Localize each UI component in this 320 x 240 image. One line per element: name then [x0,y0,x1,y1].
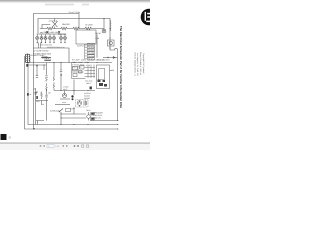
capacitor C1 [45,76,47,78]
capacitor C8 [71,95,73,97]
switch S2 [27,64,29,66]
svg-text:P.M. DYN.: P.M. DYN. [94,114,103,117]
svg-text:TO RCD: TO RCD [88,49,95,52]
ghost text top [45,4,74,6]
svg-text:L1 C4 R9 5Y3 SW: L1 C4 R9 5Y3 SW [33,49,49,52]
switch contact SW1b [58,31,60,33]
wire x35.5 [35,88,37,125]
wire left junction row [27,65,46,75]
svg-text:The Electrical Schematic Part: The Electrical Schematic Part 2 for Furt… [119,26,123,109]
svg-text:HEATER STRING 6.3V: HEATER STRING 6.3V [47,46,65,49]
wire hop [40,31,43,34]
winding L1 [109,19,111,51]
svg-text:Los Angeles 15, Calif. US: Los Angeles 15, Calif. US [136,53,139,76]
shield box [97,65,110,89]
svg-text:1.4M: 1.4M [95,37,99,40]
resistor R6 [53,78,55,89]
filter choke L2 [45,56,51,59]
svg-text:POWER TRANS.: POWER TRANS. [31,54,45,57]
heater bus [37,33,66,35]
svg-text:TO SPK: TO SPK [88,52,95,55]
tube V8 [62,91,66,98]
svg-text:ANT. SECTION: ANT. SECTION [97,58,110,61]
wire x61 lower [60,112,62,125]
toolbar background [0,144,150,151]
resistor R1 [47,27,53,30]
terminal strip TS1 [85,43,95,60]
wire ground bus [28,63,118,125]
wire y57.5 [103,57,118,59]
IF transformer block [72,66,86,79]
svg-text:6SQ7 6K6: 6SQ7 6K6 [58,33,66,36]
svg-text:TO ANT: TO ANT [88,43,94,46]
output tube box [76,100,89,108]
svg-text:Copyright 1947 printed: Copyright 1947 printed [142,53,145,73]
wire inner corner [42,25,50,29]
wire y100.5 [36,101,49,105]
svg-text:TO PWR: TO PWR [88,55,95,58]
fuse X [52,19,57,29]
svg-text:Phone DUnkirk 6-1500 x2: Phone DUnkirk 6-1500 x2 [139,52,142,76]
resistor R3 [73,27,79,30]
wire B+ bus [30,62,113,64]
capacitor C2 [45,95,47,97]
resistor R2 [61,27,67,30]
volume control VR1 [87,112,95,121]
bus y114 [61,113,86,115]
tube V7 [77,101,82,107]
tuning coil inner [99,68,105,80]
schematic outer frame [34,14,80,49]
tube V2 [44,34,47,43]
wire y120.5 stub [36,121,44,125]
svg-text:75 OHM: 75 OHM [85,24,93,27]
bus y120.5 [90,120,118,122]
speaker SP [108,40,115,46]
toolbar icons [40,144,89,148]
output transformer box T2 [76,30,96,44]
resistor R4 [85,27,92,30]
routing grid [72,63,96,79]
capacitor C11 [90,87,92,90]
tube stem wires [39,43,41,49]
bus y118 [61,117,86,119]
wire x97 [96,35,98,58]
svg-text:140 M: 140 M [95,32,101,35]
toolbar divider [0,142,150,145]
svg-text:1 MEG: 1 MEG [63,86,69,89]
svg-text:OUTPUT: OUTPUT [84,92,91,95]
svg-text:3.2Ω V.C.: 3.2Ω V.C. [94,117,103,120]
wire x74 [73,80,75,115]
tube V6 [63,34,66,43]
logo [141,9,158,26]
svg-text:DIAL LAMP SW.: DIAL LAMP SW. [45,31,59,34]
arrow terminal [73,107,75,109]
tube V5 [59,34,62,43]
capacitor C4 [36,76,38,78]
fuse box F1 [66,109,71,112]
svg-text:TO GND: TO GND [88,46,95,49]
pilot lamp I1 [103,19,105,30]
svg-text:INTERLOCK: INTERLOCK [50,110,61,113]
svg-text:OSC. 455KC: OSC. 455KC [72,66,83,69]
svg-text:PADDER: PADDER [72,68,80,71]
wire y99 [60,98,70,100]
tube V0 [36,34,39,43]
svg-text:160: 160 [111,69,114,72]
svg-text:SPEAKER: SPEAKER [94,111,104,114]
schematic text labels [29,11,114,119]
power transformer T1 [25,54,30,63]
resistor R13 [41,92,43,100]
diode D1 [113,57,115,59]
page thumbnail marker [1,134,7,140]
wire x54 [53,63,55,91]
capacitor C9 [72,98,74,100]
svg-text:117 V.A.C.: 117 V.A.C. [49,19,59,22]
inner frame [38,19,110,34]
contact marks [60,75,62,76]
top toolbar shadow [0,0,150,3]
svg-text:1900 W. Olympic Blvd. L.A.: 1900 W. Olympic Blvd. L.A. [133,52,136,77]
resistor R5 [46,78,48,89]
capacitor C10 [35,92,37,94]
capacitor C12 [27,93,29,95]
tube V3 [48,34,51,43]
svg-text:35Z5GT: 35Z5GT [84,97,90,100]
bus y90.5 [54,90,95,92]
switch SW2 [60,109,64,112]
switch contact SW1a [47,31,49,33]
wire AC row [40,28,104,30]
tuning capacitor parts [98,80,108,87]
transformer T3 [84,101,87,106]
svg-text:OUTPUT TR.: OUTPUT TR. [77,44,88,47]
junction dots [33,18,118,130]
resistor R12 [36,96,38,99]
tube V1 [40,34,43,43]
wire left frame drop [33,48,35,129]
svg-text:12SA7 12SK7 12SQ7: 12SA7 12SK7 12SQ7 [72,61,89,64]
frame bottom [34,48,70,63]
capacitor C3 [60,70,62,72]
wire right bus [110,49,118,121]
wire y104.5 [55,104,70,106]
wire B- bus [25,56,118,129]
svg-text:/ 24: / 24 [55,145,60,148]
wire x61 [60,63,62,91]
svg-text:ON-OFF: ON-OFF [62,23,70,26]
wire x46.5 [46,63,48,121]
svg-text:TO ANT. TERM: TO ANT. TERM [69,11,81,14]
tube V4 [52,34,55,43]
